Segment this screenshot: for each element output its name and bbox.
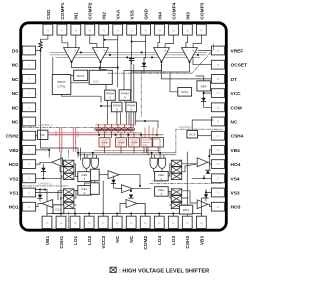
wire HO2 [36, 162, 52, 164]
block CS3 sense comparator [129, 138, 140, 147]
svg-text:PROT: PROT [57, 80, 66, 84]
block DEL4 [155, 187, 169, 197]
svg-text:OC4: OC4 [189, 132, 196, 136]
pin NC (left, 4) [12, 89, 36, 98]
wire bottom rail [47, 213, 201, 215]
pin NC (left, 3) [12, 75, 36, 84]
svg-text:NC: NC [12, 120, 19, 126]
wire sense top link [136, 121, 158, 128]
pin IN3 (top, 38) [183, 12, 193, 35]
wire EA4 output [131, 62, 190, 102]
pin HO1 (left, 12) [9, 202, 36, 211]
wire DT left long [161, 64, 211, 79]
wire GND rail down [133, 65, 135, 127]
wire VSS down [131, 35, 133, 59]
wire analog bus line 3 [56, 56, 200, 58]
wire EA3 output [124, 62, 162, 90]
resistor R-CSD [39, 42, 43, 51]
wire EA1 output [72, 62, 100, 68]
svg-text:COMP3: COMP3 [199, 2, 205, 19]
level shifter LS1a [64, 189, 74, 195]
wire G4 out [161, 169, 163, 172]
pin VREF (right, 36) [211, 46, 243, 55]
wire analog bus line 2 [50, 54, 206, 56]
AND gate G1 [83, 158, 90, 168]
wire bus lower mid 1 [78, 152, 176, 154]
block DEL1 [78, 172, 91, 182]
svg-text:CSH2: CSH2 [6, 134, 19, 140]
pin COM (right, 32) [211, 103, 241, 112]
svg-text:VB2: VB2 [9, 148, 19, 154]
wire CSH2 to OC [36, 135, 38, 137]
wire VSS rail down [130, 59, 132, 127]
block CS2 sense comparator [116, 138, 127, 147]
block FLT1 [90, 169, 99, 181]
svg-text:VSS: VSS [130, 9, 136, 19]
svg-text:VS2: VS2 [9, 176, 18, 182]
AND gate G3 [150, 158, 157, 168]
wire IN1 to EA1 non-inverting input [75, 35, 77, 48]
driver LO1 triangle [108, 171, 119, 179]
wire G2 out to DEL2 [85, 169, 95, 186]
transistor Q4 sense [114, 125, 121, 133]
section boundary dash-dot channel3 [150, 182, 222, 184]
driver HO2 triangle [52, 158, 63, 167]
svg-text:NC: NC [231, 120, 238, 126]
wire COMP1 to EA1 inverting input [62, 35, 68, 48]
svg-text:VB1: VB1 [45, 235, 51, 245]
wire COM2 riser [144, 204, 146, 214]
pin VCC2 (bottom, 17) [98, 216, 108, 248]
wire PWM outputs down [107, 100, 109, 124]
pin VCC (right, 33) [211, 89, 241, 98]
wires LO chain [99, 174, 108, 176]
pin VS1 (left, 11) [9, 188, 35, 197]
wire analog bus line 1 [50, 51, 206, 53]
wire HO3 [208, 204, 212, 207]
svg-text:VB3: VB3 [199, 235, 205, 245]
wire DEL3 to LS4 [168, 164, 171, 176]
level shifter LS2b [64, 167, 74, 173]
transistor Q6 sense [127, 125, 134, 133]
transistor Q5 sense [121, 125, 128, 133]
svg-text:IN4: IN4 [157, 12, 163, 20]
pin IN2 (top, 44) [99, 12, 109, 35]
wire G3 out to DEL3 [154, 169, 158, 172]
block 5V10 regulator [178, 88, 192, 97]
wire LS1 to HO1 drv [58, 191, 64, 205]
driver LO2 triangle [122, 185, 133, 193]
svg-text:CSH4: CSH4 [231, 134, 244, 140]
driver HO4 triangle [197, 158, 208, 167]
pin NC (left, 6) [12, 117, 36, 126]
block BIAS [74, 70, 88, 80]
svg-text:COM: COM [231, 105, 242, 111]
wire VS2 right [36, 176, 62, 179]
wire VB1 riser [35, 190, 47, 217]
block OC detect (left) [37, 130, 48, 139]
section boundary dash-dot channel4 box [176, 129, 222, 152]
svg-text:LO3: LO3 [171, 235, 177, 245]
wire IN4 to EA3 [158, 35, 160, 48]
pin DT (right, 34) [211, 75, 237, 84]
svg-text:VS3: VS3 [231, 191, 240, 197]
wire LS to drivers ch2 [60, 164, 64, 172]
driver HO1 triangle [42, 200, 53, 208]
wire VAA down to OSC node [100, 35, 118, 70]
diode D-GND [142, 63, 146, 67]
pin VSS (top, 42) [127, 9, 137, 35]
op-amp EA3 [154, 48, 170, 62]
section boundary dash-dot top-right [108, 43, 214, 73]
pin NC (right, 31) [211, 117, 238, 126]
block PROT CTRL U-PROT [52, 75, 71, 95]
pin DS (left, 1) [12, 46, 36, 55]
diode D-LO1 [111, 180, 115, 184]
svg-text:NC: NC [12, 91, 19, 97]
block CS1 sense comparator [99, 138, 110, 147]
level shifter LS2c [64, 173, 74, 179]
wires bottom pin stubs [60, 214, 62, 217]
wire COMP4 to EA3 + input [165, 35, 173, 48]
pin OCSET (right, 35) [211, 60, 247, 69]
wire long risers mid [144, 147, 148, 155]
wire CS4 up [192, 120, 213, 130]
section dash vertical ch1/ch2 [67, 150, 69, 229]
transistor Q1 sense [95, 125, 102, 133]
pin VS2 (left, 10) [9, 174, 35, 183]
svg-text:CHANNEL 2: CHANNEL 2 [38, 123, 53, 127]
block DRV4 [180, 205, 193, 214]
svg-text:IN1: IN1 [74, 12, 80, 20]
wire left risers to gates bus [41, 128, 79, 148]
svg-text:CHANNEL 1: CHANNEL 1 [38, 182, 53, 186]
AND gate G2 [91, 158, 98, 168]
block PWM3 [126, 102, 137, 112]
wire VCC2 riser [102, 181, 104, 214]
svg-text:2: 2 [116, 107, 118, 111]
svg-text:3: 3 [130, 107, 132, 111]
level shifter LS3c [171, 202, 181, 208]
block PWM2 [111, 102, 122, 112]
block CS5 comparator [141, 138, 152, 147]
op-amp EA2 [93, 48, 109, 62]
AND gate G4 [158, 158, 165, 168]
svg-text:3: 3 [161, 177, 163, 181]
wire REF up [196, 76, 204, 81]
svg-text:NC: NC [12, 63, 19, 69]
svg-text:1: 1 [109, 96, 111, 100]
block PWM1 [105, 90, 116, 100]
pin COMP4 (top, 39) [169, 2, 179, 35]
svg-text:VS4: VS4 [231, 176, 240, 182]
svg-text:VREF: VREF [231, 49, 244, 55]
wires gate inputs [84, 153, 96, 158]
svg-text:DRV: DRV [183, 208, 190, 212]
red highlight wires current sense path [60, 128, 62, 152]
level shifter LS3b [171, 196, 181, 202]
pin CSH3 (bottom, 23) [182, 216, 192, 248]
pin CSD (top, 48) [43, 9, 53, 35]
pin HO3 (right, 25) [211, 202, 240, 211]
pin VS3 (right, 26) [211, 188, 239, 197]
pin COM2 (bottom, 20) [140, 216, 150, 249]
svg-text:DT: DT [231, 77, 237, 83]
level shifter LS1c [64, 202, 74, 208]
pin LO1 (bottom, 15) [70, 216, 80, 245]
svg-text:HO1: HO1 [9, 205, 19, 211]
wire IN2 to EA2 non-inverting input [103, 35, 105, 48]
block REF [197, 81, 211, 91]
svg-text:LO4: LO4 [157, 235, 163, 245]
level shifter LS3a [171, 189, 181, 195]
svg-text:COMP1: COMP1 [60, 2, 66, 19]
wire sense drops [104, 133, 106, 138]
wire CSD stub with resistor [41, 35, 48, 41]
wire GND down [144, 35, 146, 63]
svg-text:OCSET: OCSET [231, 63, 248, 69]
pin NC (left, 5) [12, 103, 36, 112]
wire VAA-IN2 jog [105, 39, 118, 41]
wire sense to bus drops [147, 147, 159, 153]
transistor Q2 sense [101, 125, 108, 133]
pin VB3 (bottom, 24) [197, 216, 207, 245]
pin HO4 (right, 28) [211, 160, 240, 169]
svg-text:4: 4 [124, 96, 126, 100]
svg-text:CSD: CSD [46, 9, 52, 20]
wire G1 out to DEL1 [85, 169, 87, 172]
pin NC (bottom, 19) [126, 216, 136, 243]
wire GND-VSS jog [132, 41, 146, 43]
svg-text:NC: NC [12, 77, 19, 83]
wire EA2 output [101, 62, 107, 90]
svg-text:IN3: IN3 [185, 12, 191, 20]
wire PROT left feed [52, 57, 54, 74]
wire COM left [204, 101, 212, 107]
svg-text:4: 4 [161, 192, 163, 196]
pin VB2 (left, 8) [9, 146, 35, 155]
diode D-VB1 [38, 195, 42, 199]
wire OCSET left [193, 57, 211, 64]
pin VS4 (right, 27) [211, 174, 239, 183]
diode D-VB2 [41, 168, 45, 172]
svg-text:: HIGH VOLTAGE LEVEL SHIFTER: : HIGH VOLTAGE LEVEL SHIFTER [119, 268, 209, 274]
svg-text:5V10: 5V10 [181, 90, 189, 94]
pin CSH2 (left, 7) [6, 131, 36, 140]
wire VS1 junction row [36, 192, 62, 194]
wire VAA branch down to PWM area [117, 68, 119, 87]
capacitor C-VSS [129, 59, 134, 61]
wire DS to resistor node [36, 51, 41, 129]
section boundary dash-dot channel2 [22, 127, 96, 129]
wire IN3 to EA4 - input [186, 35, 188, 48]
svg-text:HO4: HO4 [231, 162, 241, 168]
svg-text:COMP2: COMP2 [88, 2, 94, 19]
level shifter LS1b [64, 196, 74, 202]
wire bus lower mid 2 [78, 154, 176, 156]
wire VB4 right riser [209, 150, 211, 170]
svg-text:CTRL: CTRL [57, 85, 65, 89]
svg-text:2: 2 [84, 191, 86, 195]
transistor Q3 sense [108, 125, 115, 133]
svg-text:CHANNEL 4: CHANNEL 4 [178, 125, 193, 129]
level shifter LS4c [171, 173, 181, 179]
svg-text:NC: NC [12, 105, 19, 111]
pin LO4 (bottom, 21) [154, 216, 164, 245]
wire LS4 to HO4 [182, 164, 198, 172]
svg-text:NC: NC [129, 235, 135, 242]
svg-text:VCC2: VCC2 [101, 235, 107, 248]
wire CSH4 to CS4 [198, 135, 212, 137]
wire VB2 right [36, 150, 50, 157]
svg-text:LO1: LO1 [73, 235, 79, 245]
block PWM4 [119, 90, 131, 101]
svg-text:DLY: DLY [56, 208, 62, 212]
block POR1 [53, 205, 64, 214]
wire PROT to OSC [71, 82, 89, 84]
diode D-LO2 [129, 195, 133, 199]
svg-text:VAA: VAA [116, 9, 122, 19]
diode D-VB3 [204, 194, 208, 198]
svg-text:VB4: VB4 [231, 148, 241, 154]
svg-text:GND: GND [144, 8, 150, 19]
wire PROT bottom run [62, 95, 102, 103]
svg-text:VS1: VS1 [9, 191, 18, 197]
pin IN1 (top, 46) [71, 12, 81, 35]
pin COMP3 (top, 37) [197, 2, 207, 35]
section boundary dash-dot vertical mid [140, 71, 142, 118]
wire COMP2 to EA2 inverting input [90, 35, 97, 48]
svg-text:OSC: OSC [93, 80, 99, 84]
IC package outline [21, 23, 227, 230]
wire VS3 [206, 190, 211, 193]
svg-text:NC: NC [115, 235, 121, 242]
block DEL2 [78, 186, 91, 196]
pin VAA (top, 43) [113, 9, 123, 35]
svg-text:COMP4: COMP4 [171, 2, 177, 19]
wire HO4 [208, 162, 212, 164]
driver HO3 triangle [197, 200, 208, 209]
pin CSH4 (right, 30) [211, 131, 243, 140]
svg-text:VCC: VCC [231, 91, 242, 97]
pin LO2 (bottom, 16) [84, 216, 94, 245]
block DEL3 [155, 172, 169, 181]
pin COMP2 (top, 45) [85, 2, 95, 35]
svg-text:REF: REF [201, 84, 207, 88]
block OSC [89, 70, 112, 84]
wire VREF left [198, 50, 211, 52]
diode D-VCC [201, 98, 205, 102]
block CS4 sense (right) [187, 130, 198, 138]
block FLT2 [90, 183, 99, 195]
block CS6 comparator [153, 138, 164, 147]
level shifter LS2a [64, 160, 74, 166]
wire VS4 [192, 176, 211, 179]
wire BIAS to PROT [71, 74, 74, 76]
pin VB1 (bottom, 13) [42, 216, 52, 245]
pin VB4 (right, 29) [211, 146, 240, 155]
svg-text:OC: OC [40, 133, 45, 137]
pin LO3 (bottom, 22) [168, 216, 178, 245]
svg-text:IN2: IN2 [102, 12, 108, 20]
pin NC (bottom, 18) [112, 216, 122, 243]
pin IN4 (top, 40) [155, 12, 165, 35]
wire DEL1 to LS ch2 [74, 164, 78, 177]
wire COMP3 to EA4 + input [193, 35, 201, 48]
wire VB3 riser [201, 198, 206, 216]
pin HO2 (left, 9) [9, 160, 36, 169]
pin NC (left, 2) [12, 60, 36, 69]
wire PWM left drop [101, 105, 111, 107]
wire HO1 [36, 204, 42, 207]
svg-text:DS: DS [12, 49, 19, 55]
wire OC to sense row [48, 134, 163, 136]
wire 5V10 left [170, 73, 178, 92]
svg-text:CSH1: CSH1 [59, 235, 65, 248]
wire LO1 riser [74, 209, 76, 214]
svg-text:1: 1 [84, 177, 86, 181]
pin CSH1 (bottom, 14) [56, 216, 66, 248]
op-amp EA1 [64, 48, 80, 62]
driver LO3 triangle [126, 200, 137, 208]
svg-text:COM2: COM2 [143, 235, 149, 249]
wire LS3 to HO3 [182, 191, 198, 205]
level shifter LS4a [171, 160, 181, 166]
svg-text:CSH3: CSH3 [185, 235, 191, 248]
svg-text:HO2: HO2 [9, 162, 19, 168]
section boundary dash-dot channel1 [22, 185, 68, 187]
wire CSH3 riser [186, 152, 188, 214]
wire DEL2 to LS ch1 [74, 190, 78, 205]
caption legend level shifter [110, 267, 209, 274]
pin GND (top, 41) [141, 8, 151, 35]
svg-text:LO2: LO2 [87, 235, 93, 245]
svg-text:HO3: HO3 [231, 205, 241, 211]
op-amp EA4 [182, 48, 198, 62]
wire DEL4 to LS3 [168, 191, 171, 205]
diode D-VB4 [206, 170, 210, 174]
wire CSH1 riser [60, 152, 62, 214]
svg-text:BIAS: BIAS [77, 74, 84, 78]
wire bus left drops [78, 148, 80, 160]
wire VCC to REF [204, 92, 212, 94]
level shifter LS4b [171, 167, 181, 173]
pin COMP1 (top, 47) [57, 2, 67, 35]
